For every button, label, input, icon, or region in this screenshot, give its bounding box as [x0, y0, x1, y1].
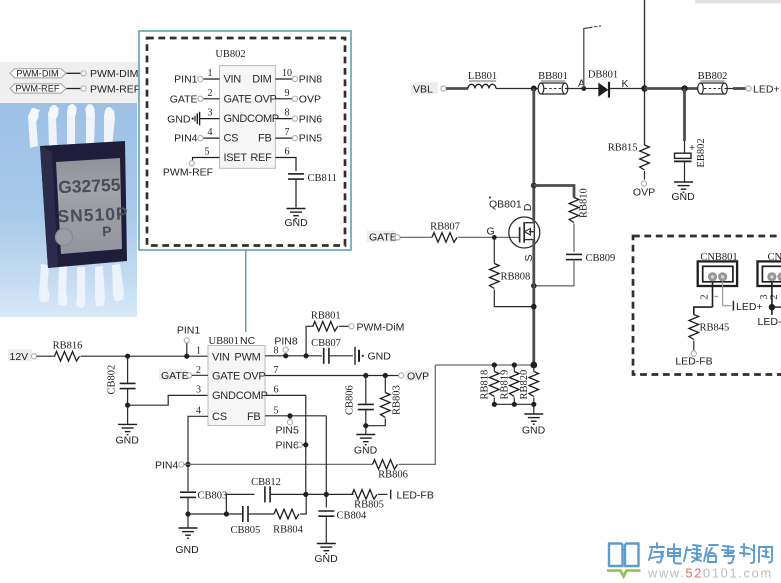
svg-text:RB845: RB845 — [700, 323, 730, 334]
svg-text:VIN: VIN — [224, 74, 242, 86]
svg-text:9: 9 — [285, 88, 290, 99]
svg-text:RB803: RB803 — [392, 385, 403, 415]
junction — [492, 402, 497, 407]
node PWM-REF — [81, 83, 140, 95]
pin 2 CNB802 — [769, 281, 781, 307]
svg-text:6: 6 — [285, 147, 290, 158]
ground below CB806 — [354, 435, 378, 457]
node GATE pin2 — [159, 369, 208, 382]
capacitor CB807 — [311, 338, 353, 364]
svg-text:5: 5 — [205, 147, 210, 158]
svg-text:GND: GND — [167, 113, 191, 125]
wire thick branch to RB810 — [534, 186, 574, 198]
svg-text:CB809: CB809 — [586, 253, 616, 264]
svg-text:NC: NC — [240, 335, 256, 347]
capacitor CB811 — [288, 173, 337, 208]
svg-text:G32755: G32755 — [58, 175, 121, 198]
wire — [534, 260, 574, 286]
ferrite bead BB802 — [698, 71, 728, 94]
svg-text:4: 4 — [196, 405, 201, 416]
svg-text:RB804: RB804 — [273, 525, 304, 536]
node 12V — [8, 350, 37, 363]
svg-text:8: 8 — [285, 108, 290, 119]
wire thick — [733, 87, 746, 90]
wire — [300, 494, 306, 514]
wire — [81, 355, 209, 357]
svg-text:7: 7 — [274, 365, 279, 376]
svg-text:OVP: OVP — [633, 186, 655, 198]
capacitor CB802 — [107, 356, 136, 405]
svg-text:CB803: CB803 — [198, 491, 228, 502]
capacitor CB806 — [345, 376, 374, 426]
svg-text:VIN: VIN — [212, 351, 230, 363]
detail callout box (teal) — [139, 31, 351, 250]
wire — [365, 426, 367, 434]
ground below CB804 — [314, 544, 338, 565]
svg-text:LED-FB: LED-FB — [397, 489, 434, 501]
transistor QB801 (N-MOSFET) — [489, 197, 540, 262]
wire stub up with tick — [584, 26, 601, 89]
svg-text:PIN4: PIN4 — [174, 133, 198, 145]
junction — [324, 492, 329, 497]
wire — [533, 404, 535, 413]
node PWM-DIM — [81, 68, 139, 80]
resistor RB815 — [608, 143, 650, 180]
svg-text:CB811: CB811 — [308, 173, 337, 184]
node PIN1 — [177, 325, 201, 359]
top pins — [28, 106, 115, 148]
IC UB801 — [196, 335, 279, 426]
svg-text:RB801: RB801 — [311, 310, 341, 321]
svg-text:VBL: VBL — [413, 83, 433, 95]
source sense rail — [435, 364, 534, 366]
pin 2 UB802 — [170, 88, 220, 106]
svg-text:UB802: UB802 — [215, 49, 245, 60]
svg-text:EB802: EB802 — [696, 138, 707, 167]
wire thick bus — [645, 87, 702, 90]
watermark green base — [607, 571, 641, 577]
svg-text:GND: GND — [116, 434, 140, 446]
pin 1 UB802 — [174, 68, 219, 86]
svg-text:3: 3 — [208, 108, 213, 119]
wire — [67, 88, 81, 90]
svg-text:GATE: GATE — [369, 232, 397, 244]
junction — [125, 354, 130, 359]
gray band behind PWM labels — [0, 62, 139, 103]
junction — [531, 86, 537, 92]
wire — [67, 72, 81, 74]
svg-text:PIN8: PIN8 — [274, 336, 298, 348]
svg-text:CB802: CB802 — [107, 365, 118, 395]
svg-text:CB805: CB805 — [231, 525, 261, 536]
wire PIN4 rail — [184, 463, 373, 465]
wire CS sense — [401, 365, 435, 464]
wire to RB845 — [694, 307, 713, 314]
junction — [531, 402, 536, 407]
svg-text:PWM-DiM: PWM-DiM — [357, 321, 405, 333]
bottom rail — [494, 403, 534, 405]
junction — [530, 362, 537, 369]
node PIN5 — [276, 416, 300, 437]
svg-text:GNDCOMP: GNDCOMP — [224, 113, 279, 125]
svg-text:RB815: RB815 — [608, 143, 638, 154]
svg-text:5: 5 — [274, 405, 279, 416]
svg-text:CS: CS — [224, 133, 239, 145]
svg-text:P: P — [102, 223, 112, 239]
svg-text:BB802: BB802 — [698, 71, 728, 82]
svg-text:GND: GND — [314, 553, 338, 565]
ground below EB802 — [671, 182, 695, 203]
capacitor CB803 — [180, 491, 227, 528]
wire — [400, 236, 432, 238]
svg-text:GATE: GATE — [161, 370, 189, 382]
watermark text 家电维修资料网 (stylized) — [649, 543, 772, 564]
svg-text:CB812: CB812 — [251, 477, 281, 488]
pin 6 UB802 wire — [275, 147, 296, 172]
svg-text:RB819: RB819 — [500, 370, 511, 400]
svg-text:12V: 12V — [10, 351, 29, 363]
svg-text:D: D — [522, 203, 534, 211]
wire OVP sense vertical — [644, 0, 646, 145]
resistor RB803 — [366, 376, 403, 426]
svg-text:RB820: RB820 — [519, 370, 530, 400]
wire GNDCOMP — [128, 395, 208, 405]
svg-text:3: 3 — [196, 385, 201, 396]
ground below sense resistors — [522, 414, 546, 437]
resistor RB801 — [306, 310, 349, 356]
svg-text:PIN6: PIN6 — [299, 113, 323, 125]
diode DB801 — [588, 69, 618, 97]
capacitor CB805 — [231, 506, 261, 536]
node PWM-DiM — [349, 321, 404, 333]
callout line to UB801 — [245, 250, 247, 332]
svg-text:PIN1: PIN1 — [177, 325, 201, 337]
wire thick EB802 drop — [683, 89, 686, 142]
node PIN4 — [155, 459, 191, 471]
pin 9 UB802 — [275, 88, 321, 106]
svg-text:4: 4 — [208, 127, 213, 138]
svg-text:PWM-REF: PWM-REF — [163, 167, 213, 179]
svg-text:RB810: RB810 — [579, 188, 590, 218]
wire — [458, 236, 520, 238]
wire — [270, 493, 306, 495]
ground right of CB807 — [355, 347, 391, 365]
chip body — [40, 141, 127, 268]
svg-text:2: 2 — [196, 365, 201, 376]
net flag PWM-DIM — [10, 68, 66, 78]
resistor RB804 — [273, 509, 304, 535]
svg-text:PWM: PWM — [234, 351, 260, 363]
svg-text:GND: GND — [522, 425, 546, 437]
svg-text:ISET: ISET — [224, 152, 248, 164]
net flag PWM-REF — [10, 84, 66, 94]
wire — [37, 355, 55, 357]
chip face — [56, 158, 122, 254]
svg-text:2: 2 — [208, 88, 213, 99]
resistor RB808 — [490, 237, 534, 306]
svg-text:PWM-DIM: PWM-DIM — [90, 68, 138, 80]
svg-text:PIN5: PIN5 — [276, 424, 300, 436]
svg-text:GATE OVP: GATE OVP — [224, 93, 277, 105]
node LED-FB — [378, 489, 434, 501]
pin 7 UB802 — [275, 127, 322, 145]
svg-text:1: 1 — [196, 345, 201, 356]
svg-text:GNDCOMP: GNDCOMP — [212, 390, 268, 402]
junction — [512, 362, 517, 367]
svg-text:OVP: OVP — [407, 371, 429, 383]
svg-text:GND: GND — [671, 191, 695, 203]
svg-text:LB801: LB801 — [468, 71, 497, 82]
capacitor CB809 — [566, 253, 615, 264]
connector CNB802 (clipped) — [758, 252, 781, 286]
svg-text:G: G — [487, 226, 495, 238]
resistor RB807 — [430, 222, 460, 243]
bottom pins — [39, 264, 124, 307]
svg-text:QB801: QB801 — [489, 198, 522, 210]
svg-text:CB807: CB807 — [311, 338, 341, 349]
svg-text:GND: GND — [175, 544, 199, 556]
wire — [306, 493, 354, 495]
svg-text:BB801: BB801 — [538, 71, 568, 82]
dashed border — [147, 38, 345, 246]
svg-text:PIN4: PIN4 — [155, 459, 179, 471]
wire bottom row — [188, 513, 242, 515]
node LED+ — [746, 83, 780, 95]
junction — [363, 423, 368, 428]
junction — [681, 85, 687, 91]
junction — [512, 402, 517, 407]
node OVP — [399, 370, 429, 383]
svg-text:RB807: RB807 — [430, 222, 460, 233]
pin 4 CS wire — [188, 416, 208, 491]
svg-text:DB801: DB801 — [588, 69, 618, 80]
pin1 dot — [56, 229, 73, 246]
svg-text:7: 7 — [285, 127, 290, 138]
resistor RB805 — [352, 490, 384, 511]
svg-text:GATE: GATE — [170, 93, 198, 105]
wire — [127, 405, 129, 424]
svg-text:REF: REF — [250, 152, 272, 164]
wire — [496, 88, 541, 90]
pin 3 CNB802 — [759, 281, 772, 315]
ground below CB811 — [284, 209, 308, 229]
node OVP bottom — [633, 181, 655, 198]
svg-text:PWM-DIM: PWM-DIM — [16, 68, 58, 78]
svg-text:LED+: LED+ — [753, 83, 780, 95]
capacitor CB812 — [251, 477, 281, 502]
node PIN6 — [276, 439, 309, 451]
ground below CB802 — [116, 424, 140, 446]
junction — [531, 304, 537, 310]
op-amp U1 : IC UB802 body — [215, 49, 279, 168]
inductor LB801 — [468, 71, 497, 89]
svg-text:GND: GND — [368, 351, 392, 363]
svg-text:SN510P: SN510P — [57, 203, 129, 226]
wire thick drain — [532, 89, 535, 223]
resistor RB820 — [519, 365, 539, 404]
svg-text:CB806: CB806 — [345, 385, 356, 415]
svg-text:DIM: DIM — [252, 74, 271, 86]
pin 6 wire — [265, 395, 306, 494]
svg-text:RB816: RB816 — [53, 340, 83, 351]
wire CB812 branch — [226, 494, 254, 514]
node A — [578, 78, 586, 91]
svg-text:2: 2 — [769, 295, 780, 300]
top-right gray sliver — [695, 0, 781, 4]
svg-text:10: 10 — [282, 68, 292, 79]
svg-text:2: 2 — [700, 295, 711, 300]
svg-text:PWM-REF: PWM-REF — [90, 83, 140, 95]
IC photo G32755 SN510P — [0, 103, 137, 317]
junction — [303, 492, 308, 497]
wire — [573, 224, 575, 253]
junction — [769, 304, 775, 310]
resistor RB816 — [53, 340, 83, 361]
svg-text:LED-FB: LED-FB — [758, 316, 781, 328]
junction — [641, 85, 647, 91]
junction — [224, 511, 229, 516]
resistor RB810 — [569, 188, 589, 222]
node LED-FB — [675, 351, 712, 367]
svg-text:CB804: CB804 — [337, 511, 368, 522]
wire — [446, 87, 468, 90]
resistor RB819 — [500, 365, 520, 404]
svg-text:RB818: RB818 — [480, 370, 491, 400]
svg-text:PIN8: PIN8 — [299, 74, 323, 86]
junction — [492, 362, 497, 367]
svg-text:LED-FB: LED-FB — [675, 355, 712, 367]
svg-text:FB: FB — [247, 411, 261, 423]
svg-text:+: + — [689, 142, 695, 154]
resistor RB806 — [373, 460, 408, 481]
pin 5 UB802 / PWM-REF — [163, 147, 220, 179]
pin 1 CNB801 — [715, 281, 763, 312]
svg-text:CS: CS — [212, 411, 227, 423]
pin 7 OVP net — [265, 373, 399, 378]
pin 10 UB802 — [275, 68, 322, 86]
wire — [610, 88, 645, 90]
svg-text:RB808: RB808 — [501, 272, 531, 283]
svg-text:FB: FB — [258, 133, 271, 145]
svg-text:GND: GND — [284, 217, 308, 229]
svg-text:PIN6: PIN6 — [276, 439, 300, 451]
wire thick source — [532, 240, 535, 365]
svg-text:PIN1: PIN1 — [174, 74, 198, 86]
svg-text:www.520101.com: www.520101.com — [647, 566, 773, 581]
ground below CB803 — [175, 528, 199, 556]
pin 4 UB802 — [174, 127, 219, 145]
svg-text:6: 6 — [274, 385, 279, 396]
junction — [531, 183, 537, 189]
wire — [725, 88, 734, 90]
pin 8 net — [265, 336, 322, 359]
node VBL — [411, 82, 446, 95]
svg-text:PIN5: PIN5 — [299, 133, 323, 145]
svg-text:UB801: UB801 — [209, 336, 239, 347]
pin 3 UB802 with ground stub — [167, 108, 219, 126]
chip marking — [56, 174, 130, 241]
svg-text:RB805: RB805 — [354, 499, 384, 510]
watermark logo book icon — [609, 544, 639, 567]
pin 8 UB802 — [275, 108, 322, 126]
pin 2 CNB801 — [700, 281, 713, 307]
svg-text:RB806: RB806 — [378, 470, 408, 481]
svg-text:GATE OVP: GATE OVP — [212, 371, 265, 383]
svg-text:LED+: LED+ — [736, 301, 763, 313]
wire — [565, 88, 599, 90]
svg-text:1: 1 — [208, 68, 213, 79]
svg-text:GND: GND — [354, 445, 378, 457]
connector dashed box — [633, 236, 781, 375]
svg-text:PWM-REF: PWM-REF — [16, 84, 60, 94]
resistor RB818 — [480, 365, 500, 404]
node GATE — [367, 231, 400, 244]
capacitor EB802 electrolytic — [674, 138, 707, 181]
ferrite bead BB801 — [538, 71, 568, 94]
junction — [125, 403, 130, 408]
connector CNB801 — [698, 252, 738, 286]
wire — [399, 463, 402, 465]
capacitor CB804 — [318, 511, 367, 544]
junction — [185, 511, 190, 516]
pin 5 FB wire — [265, 413, 326, 507]
junction — [531, 283, 537, 289]
node G — [487, 226, 497, 240]
wire — [248, 513, 274, 515]
svg-text:OVP: OVP — [299, 93, 321, 105]
resistor RB845 — [689, 315, 729, 351]
